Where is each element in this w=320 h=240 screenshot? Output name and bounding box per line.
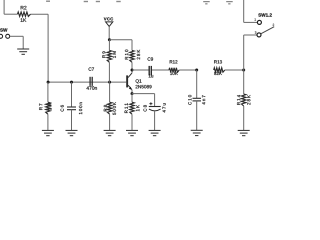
cut-off ground B (top edge)	[226, 1, 233, 4]
wire	[4, 13, 17, 15]
capacitor C10	[188, 70, 205, 130]
pin 1	[255, 18, 256, 20]
wire	[22, 36, 24, 49]
wire	[108, 62, 110, 82]
switch SW1.2	[255, 13, 275, 37]
pin 2	[273, 24, 274, 26]
top-edge cut mark 1	[46, 1, 50, 2]
capacitor C7	[86, 67, 96, 89]
wire	[108, 26, 110, 39]
resistor R13	[214, 60, 225, 75]
VCC supply	[104, 17, 113, 39]
wire	[154, 94, 156, 107]
ground (R7)	[42, 130, 54, 135]
top-edge cut mark 4	[116, 1, 120, 2]
ground (R11)	[126, 130, 138, 135]
wire	[152, 69, 169, 71]
wire	[3, 0, 5, 14]
wire	[71, 110, 73, 131]
wire	[71, 82, 73, 107]
node A	[47, 81, 50, 84]
cut-off ground A (top edge)	[203, 1, 210, 4]
wire	[10, 35, 23, 37]
wire	[244, 34, 257, 36]
wire	[47, 82, 49, 102]
node B	[70, 81, 73, 84]
switch SW1.1 terminal circles	[0, 28, 7, 31]
node C10 node	[195, 69, 198, 72]
wire	[154, 111, 156, 130]
node emitter	[131, 92, 134, 95]
node base	[108, 81, 111, 84]
node VCC	[108, 38, 111, 41]
resistor R10	[125, 40, 140, 70]
wire	[243, 35, 245, 70]
wire	[109, 82, 111, 102]
wire	[196, 70, 198, 98]
ground (SW)	[17, 49, 29, 54]
wire	[31, 13, 49, 15]
wire	[108, 40, 110, 51]
capacitor C9	[148, 57, 154, 77]
wire	[225, 69, 244, 71]
wire	[132, 93, 155, 95]
wire	[47, 114, 49, 130]
capacitor C6	[61, 82, 83, 130]
wire	[47, 14, 49, 82]
top-edge cut mark 3	[96, 1, 100, 2]
wire	[243, 106, 245, 130]
wire	[243, 70, 245, 94]
resistor R12	[169, 60, 179, 75]
wire	[131, 114, 133, 130]
wire	[243, 0, 245, 22]
wire	[48, 81, 126, 83]
wire	[131, 40, 133, 51]
transistor Q1 2N5089	[126, 70, 151, 94]
wire	[131, 94, 133, 103]
ground (R8)	[104, 130, 116, 135]
plus mark	[149, 102, 152, 105]
resistor R9	[102, 40, 116, 82]
wire	[179, 69, 197, 71]
wire	[109, 114, 111, 130]
resistor R7	[39, 82, 51, 130]
ground (C10)	[191, 130, 203, 135]
node out	[242, 69, 245, 72]
ground (C8)	[149, 130, 161, 135]
ground (C6)	[66, 130, 78, 135]
wire	[132, 69, 149, 71]
resistor R8	[104, 82, 116, 130]
resistor R2	[18, 12, 31, 16]
resistor R14	[237, 70, 250, 130]
resistor R11	[125, 94, 140, 131]
ground (R14)	[238, 130, 250, 135]
wire	[109, 39, 132, 41]
top-edge cut mark 2	[84, 1, 88, 2]
node collector	[131, 69, 134, 72]
capacitor C8 (electrolytic)	[132, 94, 166, 131]
wire	[244, 21, 258, 23]
wire	[196, 101, 198, 130]
wire	[131, 62, 133, 70]
pin 3	[255, 31, 257, 33]
